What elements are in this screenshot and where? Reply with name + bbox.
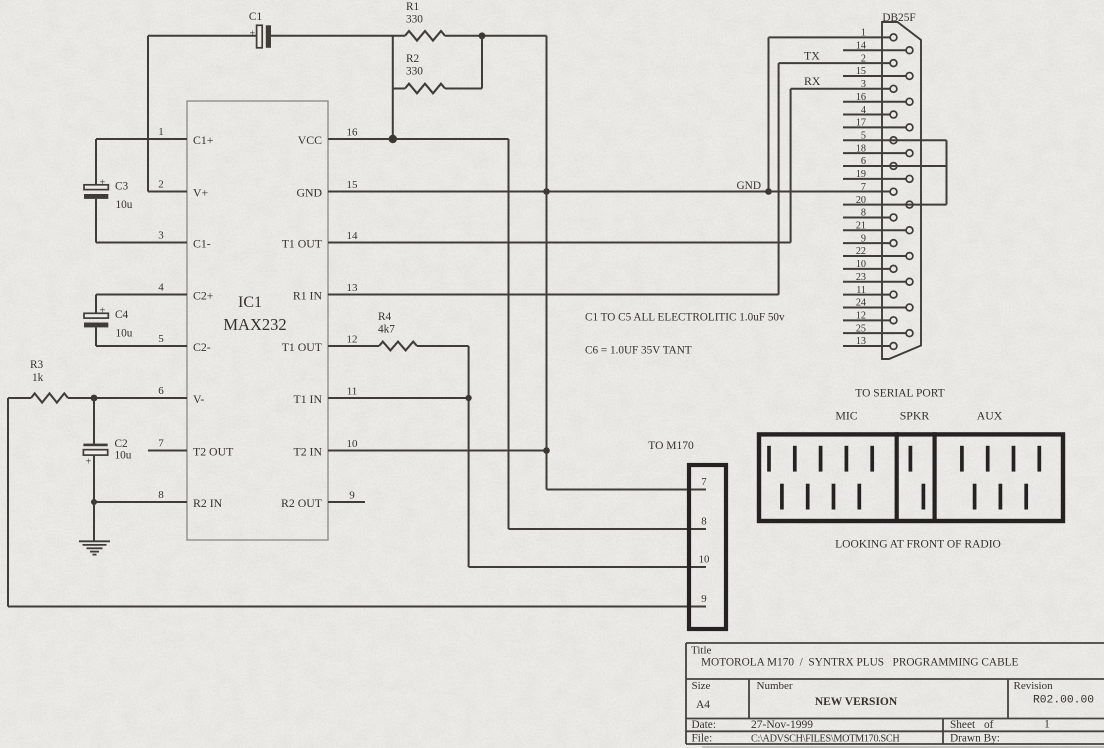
wire VCC vertical down to M170 pin 8 level xyxy=(508,139,510,529)
svg-text:7: 7 xyxy=(158,438,164,450)
title block: Size label xyxy=(692,680,711,692)
IC1 pin number 6 xyxy=(158,385,164,397)
wire T1 IN: IC1 pin 11 stub xyxy=(328,397,469,399)
title block: Date label xyxy=(692,719,716,731)
capacitor C1 xyxy=(249,25,271,48)
wire R2 IN node down to ground xyxy=(93,502,95,541)
svg-text:19: 19 xyxy=(856,169,866,180)
resistor R2 xyxy=(393,84,445,94)
title block: file path value xyxy=(751,734,900,745)
DB25F pin 25 stub, hole and number xyxy=(843,323,913,336)
resistor R3 designator label xyxy=(30,359,44,371)
svg-text:1: 1 xyxy=(861,28,866,39)
svg-text:TO M170: TO M170 xyxy=(648,440,694,452)
wire R4 right to vertical drop xyxy=(417,346,469,567)
svg-text:24: 24 xyxy=(856,298,866,309)
IC1 pin number 3 xyxy=(158,230,164,242)
IC1 right pin name GND xyxy=(296,186,322,200)
resistor R3 xyxy=(31,393,68,402)
wire R1 right to rail corner xyxy=(445,35,547,37)
svg-text:R2: R2 xyxy=(406,53,420,65)
svg-text:C2: C2 xyxy=(115,438,129,450)
IC1 right pin name R1 IN xyxy=(293,289,323,303)
resistor R4 xyxy=(379,342,417,351)
svg-text:10: 10 xyxy=(856,259,866,270)
svg-text:4: 4 xyxy=(861,105,866,116)
wire R2 branch vertical (left) xyxy=(392,36,394,139)
title block: Title label xyxy=(691,645,712,657)
C4 designator label xyxy=(115,309,129,321)
wire C1 to R1 xyxy=(271,35,405,37)
svg-text:4k7: 4k7 xyxy=(378,324,395,336)
C1 designator label xyxy=(249,11,262,23)
DB25F pin 8 stub, hole and number xyxy=(843,208,897,221)
radio AUX connector pin slots xyxy=(962,446,1039,510)
IC1 pin number 12 xyxy=(347,334,358,346)
svg-text:VCC: VCC xyxy=(298,133,322,147)
junction node T2 IN xyxy=(543,447,550,454)
svg-text:20: 20 xyxy=(856,195,866,206)
C3 value label 10u xyxy=(116,199,133,211)
svg-text:R3: R3 xyxy=(30,359,44,371)
svg-text:14: 14 xyxy=(856,40,866,51)
svg-text:C:\ADVSCH\FILES\MOTM170.SCH: C:\ADVSCH\FILES\MOTM170.SCH xyxy=(751,734,900,745)
svg-text:+: + xyxy=(100,178,106,189)
svg-text:10u: 10u xyxy=(115,450,132,462)
svg-text:MAX232: MAX232 xyxy=(223,315,286,334)
note: C6 tantalum xyxy=(585,345,692,357)
svg-text:V-: V- xyxy=(193,392,204,406)
DB25F pin 19 stub, hole and number xyxy=(843,169,913,182)
svg-text:1: 1 xyxy=(1044,719,1050,731)
title block: File label xyxy=(692,733,713,745)
RX net label xyxy=(804,74,821,88)
IC1 value label MAX232 xyxy=(223,315,286,334)
wire C3 bottom to IC1 pin 3 xyxy=(96,199,187,243)
radio MIC connector pin slots xyxy=(769,446,872,510)
svg-text:23: 23 xyxy=(856,272,866,283)
IC1 left pin name C1- xyxy=(193,237,211,251)
IC1 right pin name T1 OUT xyxy=(282,340,323,354)
IC1 pin number 7 xyxy=(158,438,164,450)
wire left edge to R3 xyxy=(8,397,31,399)
svg-text:R4: R4 xyxy=(378,311,392,323)
junction node R2 IN xyxy=(91,499,97,505)
svg-text:C6 = 1.0UF 35V TANT: C6 = 1.0UF 35V TANT xyxy=(585,345,692,357)
IC1 left pin name T2 OUT xyxy=(193,445,234,459)
svg-text:4: 4 xyxy=(158,282,164,294)
svg-text:16: 16 xyxy=(856,92,866,103)
IC1 left pin name V+ xyxy=(193,186,209,200)
svg-text:Number: Number xyxy=(757,680,793,692)
title block: number value NEW VERSION xyxy=(815,696,898,708)
svg-text:10u: 10u xyxy=(116,328,133,340)
wire T2 IN: IC1 pin 10 stub xyxy=(328,450,547,452)
svg-text:LOOKING AT FRONT OF RADIO: LOOKING AT FRONT OF RADIO xyxy=(835,539,1001,551)
wire VCC to M170 pin 8 xyxy=(509,528,707,530)
M170 connector pin 9 label xyxy=(701,593,706,605)
wire TX to DB25F pin 2 xyxy=(779,62,891,64)
R4 value label 4k7 xyxy=(378,324,395,336)
svg-text:NEW VERSION: NEW VERSION xyxy=(815,696,898,708)
svg-text:25: 25 xyxy=(856,323,866,334)
svg-text:3: 3 xyxy=(861,79,866,90)
svg-text:13: 13 xyxy=(856,336,866,347)
svg-text:R1 IN: R1 IN xyxy=(293,289,323,303)
junction node VCC xyxy=(389,135,397,143)
svg-text:9: 9 xyxy=(349,490,355,502)
IC1 pin number 10 xyxy=(347,438,359,450)
svg-text:Date:: Date: xyxy=(692,719,716,731)
junction node GND / top-rail drop xyxy=(543,188,550,195)
junction node GND / DB25 pin1 drop xyxy=(765,188,772,195)
svg-text:C1 TO C5 ALL ELECTROLITIC 1.0u: C1 TO C5 ALL ELECTROLITIC 1.0uF 50v xyxy=(585,312,785,324)
C2 value label 10u xyxy=(115,450,132,462)
svg-text:11: 11 xyxy=(347,386,358,398)
svg-text:2: 2 xyxy=(861,53,866,64)
IC1 right pin name R2 OUT xyxy=(281,496,323,510)
wire R2 right lead up to rail xyxy=(445,36,482,89)
svg-text:R2 OUT: R2 OUT xyxy=(281,496,323,510)
svg-text:Revision: Revision xyxy=(1014,680,1054,692)
wire top-rail vertical drop x=546 down to M170 pin 7 xyxy=(547,36,707,490)
scan artifact smudge under title block xyxy=(702,746,1104,748)
DB25F pin 13 stub, hole and number xyxy=(843,336,897,349)
DB25F pin 5 stub, hole and number xyxy=(843,130,947,143)
DB25F pin 11 stub, hole and number xyxy=(843,285,897,298)
DB25F pin 7 stub, hole and number xyxy=(861,182,897,195)
svg-text:11: 11 xyxy=(856,285,866,296)
svg-text:Size: Size xyxy=(692,680,711,692)
R2 designator label xyxy=(406,53,420,65)
DB25F pin 1 stub, hole and number xyxy=(861,28,897,41)
IC1 left pin name V- xyxy=(193,392,204,406)
svg-text:RX: RX xyxy=(804,74,821,88)
svg-text:13: 13 xyxy=(347,282,359,294)
radio SPKR connector pin slots xyxy=(910,446,923,510)
DB25F pin 14 stub, hole and number xyxy=(843,40,913,53)
DB25F pin 21 stub, hole and number xyxy=(843,221,913,234)
IC IC1 MAX232 body xyxy=(187,101,328,540)
wire RX to DB25F pin 3 xyxy=(791,88,891,90)
svg-text:5: 5 xyxy=(861,130,866,141)
svg-text:27-Nov-1999: 27-Nov-1999 xyxy=(751,719,813,731)
M170 connector pin 7 label xyxy=(701,476,707,488)
wire bottom rail to M170 pin 9 xyxy=(8,606,706,608)
svg-text:6: 6 xyxy=(158,385,164,397)
wire R3 left vertical down to bottom rail xyxy=(7,398,9,607)
DB25F pin 12 stub, hole and number xyxy=(843,311,897,324)
svg-text:TO SERIAL PORT: TO SERIAL PORT xyxy=(855,388,944,400)
DB25F pin 9 stub, hole and number xyxy=(843,233,897,246)
svg-text:6: 6 xyxy=(861,156,866,167)
wire IC1 pin 1 stub to C3 top node xyxy=(96,139,187,185)
IC1 pin number 9 xyxy=(349,490,355,502)
capacitor C2 xyxy=(83,444,107,468)
title block: date value xyxy=(751,719,813,731)
IC1 left pin name R2 IN xyxy=(193,496,223,510)
radio connector label MIC xyxy=(835,409,857,423)
IC1 pin number 15 xyxy=(347,179,359,191)
DB25F pin 4 stub, hole and number xyxy=(843,105,897,118)
svg-text:+: + xyxy=(86,457,92,468)
svg-text:Sheet: Sheet xyxy=(950,719,976,731)
capacitor C3 xyxy=(84,178,108,199)
DB25F pin 23 stub, hole and number xyxy=(843,272,913,285)
DB25F pin 3 stub, hole and number xyxy=(861,79,897,92)
wire R4 net to M170 pin 10 xyxy=(469,566,706,568)
ground symbol xyxy=(79,541,110,554)
DB25F pin 6 stub, hole and number xyxy=(843,156,947,169)
capacitor C4 xyxy=(84,306,108,328)
wire GND: IC1 pin 15 to DB25F pin 7 xyxy=(328,191,890,193)
connector J2 TO M170 label xyxy=(648,440,694,452)
DB25F pin 16 stub, hole and number xyxy=(843,92,913,105)
DB25F pin 22 stub, hole and number xyxy=(843,246,913,259)
svg-text:R2 IN: R2 IN xyxy=(193,496,223,510)
wire T1 OUT (pin 14) to RX riser xyxy=(328,89,791,243)
svg-text:7: 7 xyxy=(861,182,866,193)
wire R1 IN (pin 13) to TX riser xyxy=(328,63,779,294)
wire R2 IN node to IC1 pin 8 xyxy=(94,501,187,503)
IC1 right pin name T1 IN xyxy=(293,392,322,406)
R3 value label 1k xyxy=(32,372,44,384)
DB25F pin 17 stub, hole and number xyxy=(843,118,913,131)
DB25F pin 18 stub, hole and number xyxy=(843,143,913,156)
svg-text:7: 7 xyxy=(701,476,707,488)
R2 value label 330 xyxy=(406,66,423,78)
svg-text:Title: Title xyxy=(691,645,712,657)
svg-text:+: + xyxy=(100,306,106,317)
svg-text:of: of xyxy=(984,719,994,731)
IC1 right pin name VCC xyxy=(298,133,322,147)
svg-text:14: 14 xyxy=(347,230,359,242)
wire C2 bottom to R2 IN node xyxy=(93,456,95,502)
C2 designator label xyxy=(115,438,129,450)
svg-text:12: 12 xyxy=(347,334,358,346)
label LOOKING AT FRONT OF RADIO xyxy=(835,539,1001,551)
title block: Sheet of label xyxy=(950,719,994,731)
svg-text:T1 OUT: T1 OUT xyxy=(282,237,323,251)
svg-text:1k: 1k xyxy=(32,372,44,384)
svg-text:8: 8 xyxy=(158,489,164,501)
connector J2 body (TO M170) xyxy=(689,465,726,629)
junction node R1/R2 right xyxy=(479,32,486,39)
DB25F pin 15 stub, hole and number xyxy=(843,66,913,79)
junction node V- / C2 top xyxy=(91,395,98,402)
title block: size value A4 xyxy=(696,699,710,711)
IC1 left pin name C2+ xyxy=(193,289,214,303)
wire IC1 pin 7 stub (T2 OUT, unconnected) xyxy=(148,450,187,452)
title block: Drawn By label xyxy=(950,733,1000,745)
wire C4 bottom to IC1 pin 5 xyxy=(96,327,187,346)
svg-text:18: 18 xyxy=(856,143,866,154)
DB25F pin 24 stub, hole and number xyxy=(843,298,913,311)
wire R3 to IC1 pin 6 (V-) xyxy=(68,397,187,399)
svg-text:9: 9 xyxy=(701,593,706,605)
svg-text:C3: C3 xyxy=(115,181,129,193)
wire IC1 pin 9 stub (R2 OUT, unconnected) xyxy=(328,501,365,503)
wire V- node down to C2 xyxy=(93,398,95,445)
title block: Revision label xyxy=(1014,680,1054,692)
TX net label xyxy=(804,49,820,63)
IC1 left pin name C1+ xyxy=(193,133,214,147)
svg-text:9: 9 xyxy=(861,233,866,244)
IC1 pin number 1 xyxy=(158,126,164,138)
svg-text:C2+: C2+ xyxy=(193,289,214,303)
IC1 right pin name T1 OUT xyxy=(282,237,323,251)
resistor R4 designator label xyxy=(378,311,392,323)
svg-text:C1-: C1- xyxy=(193,237,211,251)
svg-text:15: 15 xyxy=(856,66,866,77)
svg-text:SPKR: SPKR xyxy=(900,409,930,423)
svg-text:A4: A4 xyxy=(696,699,710,711)
svg-text:21: 21 xyxy=(856,221,866,232)
IC1 reference designator label xyxy=(238,294,262,311)
svg-text:Drawn By:: Drawn By: xyxy=(950,733,1000,745)
radio connector label SPKR xyxy=(900,409,930,423)
title block: sheet number 1 xyxy=(1044,719,1050,731)
svg-text:R1: R1 xyxy=(406,1,419,13)
svg-text:1: 1 xyxy=(158,126,164,138)
wire VCC: IC1 pin 16 to vertical drop xyxy=(328,138,509,140)
svg-text:330: 330 xyxy=(406,14,423,26)
svg-text:GND: GND xyxy=(296,186,322,200)
M170 connector pin 8 label xyxy=(701,516,706,528)
connector J1 body (DB25F) xyxy=(882,22,921,359)
IC1 right pin name T2 IN xyxy=(293,445,322,459)
R1 designator label xyxy=(406,1,419,13)
svg-text:T1 IN: T1 IN xyxy=(293,392,322,406)
svg-text:AUX: AUX xyxy=(977,409,1003,423)
svg-text:IC1: IC1 xyxy=(238,294,262,311)
note: C1 TO C5 electrolytic xyxy=(585,312,785,324)
svg-text:330: 330 xyxy=(406,66,423,78)
svg-text:16: 16 xyxy=(347,127,359,139)
svg-text:3: 3 xyxy=(158,230,164,242)
svg-text:File:: File: xyxy=(692,733,713,745)
svg-text:5: 5 xyxy=(158,333,164,345)
svg-text:V+: V+ xyxy=(193,186,209,200)
IC1 pin number 14 xyxy=(347,230,359,242)
C4 value label 10u xyxy=(116,328,133,340)
IC1 pin number 2 xyxy=(158,179,164,191)
R1 value label 330 xyxy=(406,14,423,26)
svg-text:10: 10 xyxy=(699,554,710,566)
svg-text:22: 22 xyxy=(856,246,866,257)
svg-text:8: 8 xyxy=(861,208,866,219)
IC1 pin number 4 xyxy=(158,282,164,294)
IC1 pin number 8 xyxy=(158,489,164,501)
svg-text:MIC: MIC xyxy=(835,409,857,423)
svg-text:8: 8 xyxy=(701,516,706,528)
wire DB25F jumper pins 5-6-20 xyxy=(946,140,948,204)
IC1 left pin name C2- xyxy=(193,340,211,354)
title block frame xyxy=(686,643,1104,744)
IC1 pin number 11 xyxy=(347,386,358,398)
svg-text:T2 IN: T2 IN xyxy=(293,445,322,459)
svg-text:T1 OUT: T1 OUT xyxy=(282,340,323,354)
wire IC1 pin 2 stub (V+) to top rail vertical xyxy=(148,36,187,192)
wire DB25F pin 1 jumper down to GND line xyxy=(769,37,891,191)
wire IC1 pin 12 stub to R4 xyxy=(328,345,379,347)
IC1 pin number 16 xyxy=(347,127,359,139)
svg-text:15: 15 xyxy=(347,179,359,191)
M170 connector pin 10 label xyxy=(699,554,710,566)
DB25F pin 10 stub, hole and number xyxy=(843,259,897,272)
svg-text:17: 17 xyxy=(856,118,866,129)
wire IC1 pin 4 stub to C4 top node xyxy=(96,295,187,314)
IC1 pin number 5 xyxy=(158,333,164,345)
wire top rail from V+ vertical to C1 xyxy=(148,35,257,37)
svg-text:C2-: C2- xyxy=(193,340,211,354)
svg-text:MOTOROLA M170 / SYNTRX PLUS: MOTOROLA M170 / SYNTRX PLUS PROGRAMMING … xyxy=(701,657,1018,669)
DB25F pin 2 stub, hole and number xyxy=(861,53,897,66)
svg-text:2: 2 xyxy=(158,179,164,191)
title block: schematic title xyxy=(701,657,1018,669)
svg-text:10: 10 xyxy=(347,438,359,450)
svg-text:TX: TX xyxy=(804,49,820,63)
svg-text:GND: GND xyxy=(737,180,761,192)
svg-text:C4: C4 xyxy=(115,309,129,321)
radio front connector outline xyxy=(759,432,1063,521)
DB25F pin 20 stub, hole and number xyxy=(843,195,947,208)
svg-text:T2 OUT: T2 OUT xyxy=(193,445,234,459)
junction node T1 IN / R4 xyxy=(466,395,472,401)
GND net label xyxy=(737,180,761,192)
connector J1 label DB25F xyxy=(882,12,915,24)
radio connector label AUX xyxy=(977,409,1003,423)
title block: Number label xyxy=(757,680,793,692)
svg-text:R02.00.00: R02.00.00 xyxy=(1033,695,1094,707)
resistor R1 xyxy=(405,31,445,41)
svg-text:+: + xyxy=(249,29,255,40)
svg-text:10u: 10u xyxy=(116,199,133,211)
svg-text:C1+: C1+ xyxy=(193,133,214,147)
svg-text:C1: C1 xyxy=(249,11,262,23)
title block: revision value R02.00.00 xyxy=(1033,695,1094,707)
IC1 pin number 13 xyxy=(347,282,359,294)
C3 designator label xyxy=(115,181,129,193)
svg-text:12: 12 xyxy=(856,311,866,322)
label TO SERIAL PORT xyxy=(855,388,944,400)
